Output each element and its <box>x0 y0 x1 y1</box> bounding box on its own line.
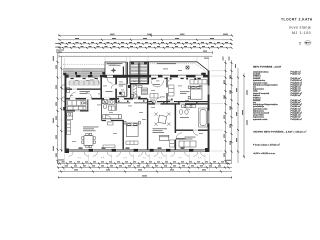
balcony dark posts <box>63 72 105 75</box>
lower right room furniture <box>179 141 196 147</box>
interior wall vertical x102 lower thin <box>100 99 103 121</box>
interior wall horizontal y101.5 right bedroom bottom <box>148 101 207 102</box>
left dim rotated numbers <box>53 56 57 157</box>
door arc bath <box>176 133 182 139</box>
bottom dimension line 3 <box>58 171 232 173</box>
bedroom2 label <box>180 91 190 94</box>
terrace door marker <box>186 66 189 69</box>
svg-text:P bruto 2.kata = 175,61 m²: P bruto 2.kata = 175,61 m² <box>253 143 280 146</box>
svg-text:5: 5 <box>299 41 301 45</box>
small annotation dots in corridor <box>118 99 198 104</box>
sofa middle living <box>103 115 122 119</box>
svg-text:novo stanje: novo stanje <box>289 26 311 30</box>
kitchen counter row 2 <box>68 106 87 110</box>
top dimension line 1 <box>58 35 232 37</box>
left wall radiator blob <box>63 107 65 111</box>
top-left corner block <box>65 75 70 78</box>
interior wall vertical x101 upper <box>100 77 102 99</box>
interior wall vertical x131 <box>130 84 131 100</box>
door arc bedroom1 window <box>93 78 99 84</box>
svg-text:kuhinja sa blagovanjem: kuhinja sa blagovanjem <box>253 84 278 86</box>
top right chamfer dim label <box>204 57 236 69</box>
bottom dimension line 1 <box>58 163 232 165</box>
terrace dashed overhang <box>150 64 206 72</box>
bathroom right of shaft fixtures <box>131 85 148 99</box>
right dim rotated numbers <box>224 75 248 157</box>
legend rows <box>253 70 302 120</box>
interior wall horizontal y130 bath bottom <box>176 130 208 131</box>
interior wall vertical x175.5 <box>175 104 177 151</box>
top exterior wall with window openings <box>65 75 209 78</box>
roof eave line 2 <box>59 55 213 58</box>
roofbox stair-side walls <box>123 62 147 88</box>
radiator marks on bottom wall <box>79 148 185 149</box>
legend header <box>253 65 282 68</box>
bottom dimension line 2 <box>58 167 232 169</box>
stair handrail <box>138 63 140 83</box>
closet row top right bedroom <box>190 80 207 84</box>
svg-text:MJ 1:100: MJ 1:100 <box>292 31 311 35</box>
roof eave line 1 <box>59 51 213 54</box>
top dim numbers <box>61 34 229 52</box>
closet strip left wall <box>67 121 71 135</box>
corridor south line x116-148 <box>117 102 147 104</box>
sofa right living <box>160 135 169 140</box>
bottom exterior wall with window openings <box>65 149 210 158</box>
door arc right corridor 2 <box>185 105 190 110</box>
svg-text:P=8,19 m²: P=8,19 m² <box>291 73 302 76</box>
bottom dim tick marks <box>57 163 232 179</box>
top dimension line 3 <box>58 43 232 45</box>
wardrobe lower middle <box>126 141 138 145</box>
interior wall horizontal y120.5 <box>102 120 124 121</box>
extension lines to dimension chains <box>59 57 224 171</box>
stairwell walls <box>130 62 148 84</box>
right exterior wall <box>208 71 210 152</box>
svg-text:P=10,48 m²: P=10,48 m² <box>291 118 303 121</box>
subtitle novo stanje <box>289 26 311 30</box>
door arc wc lower <box>193 130 198 135</box>
legend elevation line <box>253 153 276 155</box>
interior wall vertical x167 upper <box>166 77 167 104</box>
bathroom right fixtures <box>179 105 207 127</box>
double door arcs hall right <box>151 81 164 88</box>
scattered dimension text bars inside plan <box>70 80 203 144</box>
dining table left with chairs <box>82 133 96 147</box>
subtitle MJ 1:100 <box>292 31 311 35</box>
interior wall vertical x123 lower <box>123 120 124 150</box>
stair bottom wall <box>130 83 148 84</box>
door arc roofbox <box>107 78 113 84</box>
small table middle living <box>108 122 114 125</box>
bed top right <box>188 86 202 99</box>
stair treads <box>131 63 147 83</box>
washing machine boxes <box>67 113 73 120</box>
dining table right with x chairs <box>155 113 171 126</box>
svg-text:spavaća soba: spavaća soba <box>253 119 268 121</box>
lower right room label <box>185 137 196 140</box>
left dim ticks <box>57 61 63 162</box>
radiator marks on top wall <box>71 78 201 79</box>
top left leader labels <box>55 34 152 53</box>
terrace outline with chamfer <box>148 62 209 71</box>
middle bathroom fixtures <box>103 100 115 109</box>
title text TLOCRT 2.KATA <box>281 17 313 21</box>
roof exit label <box>107 63 123 66</box>
interior wall horizontal y110.8 left <box>66 110 88 111</box>
interior wall vertical x116 <box>115 77 117 103</box>
wc label <box>119 84 126 87</box>
right vertical dimension line 4 <box>243 73 245 158</box>
interior wall vertical x88 short <box>87 99 88 111</box>
door arc hall 4 <box>119 93 124 98</box>
right dim ticks <box>225 62 246 162</box>
left exterior wall <box>65 75 67 152</box>
corridor washing boxes <box>109 106 116 111</box>
right vertical dimension line 3 <box>237 68 239 163</box>
top dimension line 4 <box>58 47 232 49</box>
top dim tick marks row1 <box>59 35 234 49</box>
bathroom right label <box>180 116 189 119</box>
legend brutto line <box>253 143 280 146</box>
closet against wall x175 <box>170 140 175 147</box>
shaft with hatch next to stairs <box>133 85 137 99</box>
top wall jamb blobs right part <box>151 78 196 80</box>
interior wall vertical x147 lower <box>147 99 148 150</box>
door arc living right <box>106 115 111 120</box>
wc by stairs walls and fixtures <box>118 78 128 98</box>
right vertical dimension line 2 <box>231 60 233 163</box>
kitchen counter row 1 <box>68 101 87 106</box>
door arc hall 1 <box>70 92 76 98</box>
svg-text:P=3,50 m²: P=3,50 m² <box>291 94 302 97</box>
terrace corner flue box <box>202 73 206 77</box>
section mark circles on left wall <box>62 85 66 102</box>
right vertical dimension line 1 <box>225 60 227 163</box>
bedroom1 label <box>80 91 91 94</box>
roof exit cross symbol <box>111 68 116 73</box>
tv bench middle living <box>103 145 115 148</box>
right wall window glazing lines <box>207 86 210 124</box>
right living label <box>153 128 168 133</box>
sheet number 5 with north arrow circle <box>299 41 311 46</box>
terrace misc marks <box>163 69 182 71</box>
closet row top-left bedroom <box>69 81 99 85</box>
left vertical dimension lines <box>58 52 62 164</box>
top dimension line 2 <box>58 39 232 41</box>
interior wall vertical x116 thin lower <box>115 103 118 111</box>
door arc wall x116 <box>111 85 115 89</box>
svg-text:+6,08 = +96,38 m.n.m.: +6,08 = +96,38 m.n.m. <box>253 153 276 155</box>
hall right closet <box>150 85 174 98</box>
door arc right corridor 1 <box>155 98 161 104</box>
svg-text:NETO POVRŠINE - 2.KAT: NETO POVRŠINE - 2.KAT <box>253 65 282 68</box>
roof exit box <box>105 62 126 78</box>
bottom wall corner blocks <box>65 148 210 153</box>
door arc hall 2 <box>86 92 92 98</box>
bottom dimension line 4 <box>58 177 232 179</box>
interior wall horizontal y138.5 small <box>176 138 186 139</box>
interior wall horizontal y98.5 corridor left <box>66 98 147 100</box>
living room label left <box>83 127 99 132</box>
door arc hall 3 <box>104 100 110 106</box>
bedroom1 small furniture <box>67 88 70 93</box>
interior wall horizontal y89 <box>66 89 101 90</box>
legend total line <box>253 130 307 133</box>
door arc wc stairs <box>133 93 138 98</box>
svg-text:UKUPNO NETO POVRŠINA - 2.KAT =: UKUPNO NETO POVRŠINA - 2.KAT = 166,31 m² <box>253 130 307 133</box>
interior wall horizontal y103.5 right corridor <box>148 103 207 104</box>
bed lower middle <box>124 122 140 137</box>
balcony with railing hatch <box>63 69 105 75</box>
hall label <box>106 90 113 93</box>
svg-text:TLOCRT 2.KATA: TLOCRT 2.KATA <box>281 17 313 21</box>
terrace label <box>157 63 176 64</box>
stairwell right wall dark strip <box>148 62 150 85</box>
bottom dim numbers <box>58 160 231 177</box>
hall right label bars <box>150 84 173 101</box>
balcony roof dashed line <box>63 63 116 65</box>
